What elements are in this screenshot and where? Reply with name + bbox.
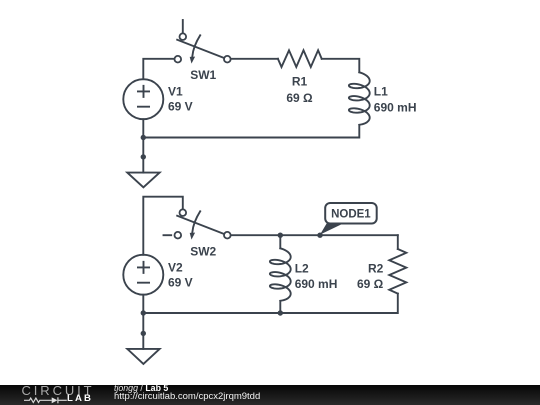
svg-text:69 Ω: 69 Ω	[357, 277, 384, 291]
svg-text:R2: R2	[368, 261, 384, 275]
svg-text:690 mH: 690 mH	[295, 277, 338, 291]
svg-text:69 V: 69 V	[168, 99, 193, 113]
svg-text:69 V: 69 V	[168, 275, 193, 289]
svg-text:69 Ω: 69 Ω	[286, 91, 313, 105]
svg-text:V2: V2	[168, 261, 183, 275]
svg-text:L2: L2	[295, 261, 309, 275]
svg-text:V1: V1	[168, 85, 183, 99]
svg-text:NODE1: NODE1	[331, 208, 371, 220]
svg-text:SW2: SW2	[190, 244, 216, 258]
svg-text:R1: R1	[292, 75, 308, 89]
svg-text:L1: L1	[374, 85, 388, 99]
svg-text:690 mH: 690 mH	[374, 100, 417, 114]
svg-text:SW1: SW1	[190, 68, 216, 82]
